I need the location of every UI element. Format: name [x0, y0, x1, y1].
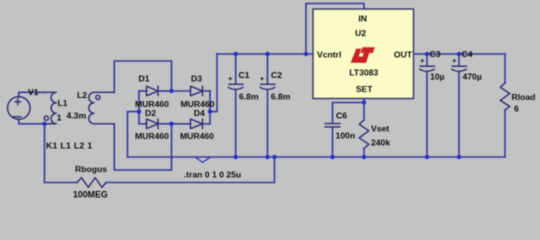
svg-text:SET: SET — [356, 84, 373, 94]
svg-text:L2: L2 — [77, 90, 87, 100]
svg-text:L1: L1 — [58, 98, 68, 108]
svg-text:Rload: Rload — [512, 92, 536, 102]
svg-text:K1 L1 L2 1: K1 L1 L2 1 — [46, 140, 93, 150]
svg-text:+: + — [228, 74, 233, 83]
svg-text:240k: 240k — [371, 138, 390, 148]
svg-text:+: + — [420, 56, 425, 65]
svg-text:6.8m: 6.8m — [271, 92, 291, 102]
svg-text:MUR460: MUR460 — [135, 131, 169, 141]
svg-text:.tran 0 1 0 25u: .tran 0 1 0 25u — [184, 169, 241, 179]
svg-text:Vcntrl: Vcntrl — [317, 49, 341, 59]
svg-text:IN: IN — [358, 13, 367, 23]
svg-text:Rbogus: Rbogus — [75, 164, 107, 174]
svg-text:100MEG: 100MEG — [73, 190, 108, 200]
svg-text:C6: C6 — [336, 111, 347, 121]
svg-text:Vset: Vset — [371, 124, 389, 134]
svg-text:+: + — [260, 74, 265, 83]
svg-text:U2: U2 — [355, 28, 366, 38]
svg-text:V1: V1 — [28, 87, 39, 97]
svg-text:D2: D2 — [145, 108, 156, 118]
svg-text:C4: C4 — [462, 49, 473, 59]
svg-text:6.8m: 6.8m — [239, 92, 259, 102]
svg-text:C1: C1 — [239, 70, 250, 80]
svg-text:6: 6 — [514, 103, 519, 113]
svg-text:C3: C3 — [430, 49, 441, 59]
svg-text:470µ: 470µ — [463, 71, 482, 81]
svg-text:LT3083: LT3083 — [349, 68, 378, 78]
svg-text:+: + — [452, 56, 457, 65]
svg-text:OUT: OUT — [394, 49, 413, 59]
svg-text:100n: 100n — [336, 131, 356, 141]
svg-text:D3: D3 — [191, 74, 202, 84]
svg-text:D1: D1 — [139, 74, 150, 84]
svg-text:10µ: 10µ — [430, 71, 445, 81]
svg-text:4.3m: 4.3m — [67, 110, 87, 120]
svg-text:C2: C2 — [271, 70, 282, 80]
svg-text:D4: D4 — [194, 108, 205, 118]
svg-text:1: 1 — [57, 112, 62, 122]
svg-text:MUR460: MUR460 — [180, 131, 214, 141]
